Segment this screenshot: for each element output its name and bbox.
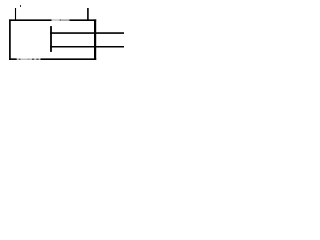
component outline bottom edge right segment — [41, 58, 97, 60]
component outline left edge — [9, 19, 11, 60]
wire top-left stub — [15, 8, 17, 20]
wire top-right stub — [87, 8, 89, 20]
component outline top edge mid-gray segment — [62, 19, 70, 21]
component outline top edge faint segment — [52, 19, 63, 21]
component outline top edge right segment — [70, 19, 97, 21]
component outline bottom edge dash 3 — [36, 58, 38, 60]
component outline right edge — [94, 19, 96, 60]
pin 1 wire — [50, 32, 124, 34]
pin 2 wire — [50, 46, 124, 48]
component outline bottom edge faint segment — [17, 58, 41, 60]
component outline bottom edge speck — [28, 58, 29, 60]
component outline bottom edge dash 1 — [19, 58, 21, 60]
component outline bottom edge dash 2 — [32, 58, 34, 60]
node dot — [20, 5, 21, 7]
pin common vertical bar — [50, 26, 52, 52]
component outline bottom edge left segment — [9, 58, 17, 60]
component outline top edge small dash — [60, 19, 62, 21]
component outline top edge left segment — [9, 19, 51, 21]
